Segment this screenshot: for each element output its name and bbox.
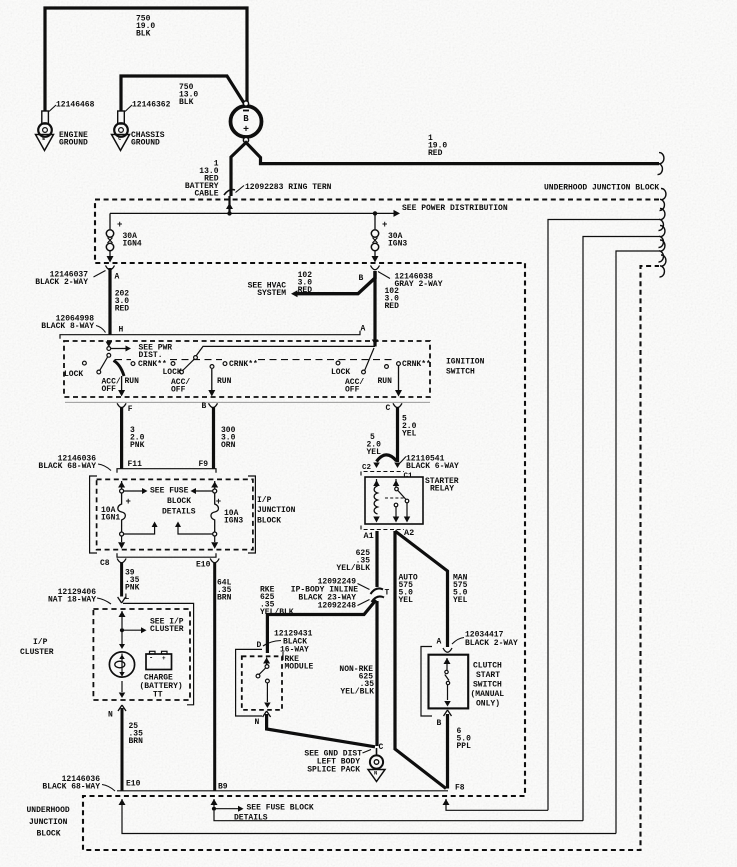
svg-text:A2: A2 — [404, 528, 414, 538]
terminal N cluster — [118, 705, 126, 711]
inline connector T 12092249/12092248 — [375, 590, 381, 600]
section 3 LOCK contact — [336, 361, 340, 365]
svg-text:CRNK**: CRNK** — [402, 360, 431, 369]
wire RKE branch 625 .35 YEL/BLK — [267, 600, 376, 653]
svg-text:TT: TT — [153, 690, 163, 699]
svg-text:E10: E10 — [126, 779, 141, 788]
svg-text:PNK: PNK — [125, 584, 140, 593]
svg-text:F11: F11 — [128, 460, 143, 469]
section 2 CRNK contact — [223, 362, 227, 366]
svg-text:SWITCH: SWITCH — [446, 367, 475, 376]
wire MAN 575 5.0 YEL from A2 — [395, 531, 448, 647]
starter relay box — [365, 477, 423, 524]
clutch switch contacts — [444, 658, 451, 664]
section 2 output to B — [211, 369, 213, 392]
section 2 RUN contact — [210, 365, 214, 369]
break top dashed border — [660, 188, 666, 210]
ignition switch crank feed line — [196, 346, 375, 356]
clutch switch bracket — [421, 647, 432, 717]
svg-text:E: E — [42, 136, 45, 142]
svg-text:+: + — [382, 220, 387, 230]
svg-text:MODULE: MODULE — [285, 662, 314, 671]
label 12146362 with leader — [125, 105, 132, 112]
svg-text:CLUSTER: CLUSTER — [20, 648, 54, 657]
section 2 LOCK contact — [171, 362, 175, 366]
svg-text:BLOCK: BLOCK — [257, 517, 281, 526]
RKE module dashed box — [242, 656, 282, 710]
svg-text:SYSTEM: SYSTEM — [257, 289, 286, 298]
svg-text:LOCK: LOCK — [331, 368, 350, 377]
svg-text:IGNITION: IGNITION — [446, 357, 485, 366]
break bottom dashed border — [660, 255, 666, 277]
label 12129406 NAT 18-WAY with leader — [97, 598, 111, 604]
svg-text:RUN: RUN — [378, 377, 393, 386]
feed wire right 2 — [583, 237, 659, 821]
svg-text:BRN: BRN — [217, 594, 232, 603]
18-way connector line and bracket — [123, 603, 194, 704]
svg-text:YEL: YEL — [399, 596, 414, 605]
svg-text:A: A — [437, 637, 442, 646]
bus wire inside junction block — [110, 212, 396, 214]
label 12129431 BLACK 16-WAY with leader — [263, 641, 281, 647]
svg-text:RUN: RUN — [125, 377, 140, 386]
label 12146468 with leader — [49, 105, 56, 112]
arrow SEE HVAC SYSTEM — [291, 290, 298, 297]
svg-text:RED: RED — [298, 286, 313, 295]
ignition switch dashed box — [64, 341, 430, 397]
off-page break of RED feed wire — [658, 153, 664, 175]
svg-text:BLOCK: BLOCK — [167, 497, 191, 506]
label 12146037 BLACK 2-WAY with leader — [94, 271, 106, 278]
section 1 LOCK contact — [83, 361, 87, 365]
svg-text:BLK: BLK — [179, 98, 194, 107]
svg-text:START: START — [476, 671, 500, 680]
underhood junction block dashed outline — [83, 200, 659, 851]
8-way connector line — [60, 331, 360, 339]
terminal B out — [209, 403, 218, 407]
arrow SEE POWER DISTRIBUTION — [394, 210, 401, 217]
svg-text:YEL/BLK: YEL/BLK — [336, 564, 370, 573]
label 12146038 GRAY 2-WAY with leader — [378, 272, 390, 279]
wire NON-RKE 625 .35 YEL/BLK — [375, 601, 378, 746]
svg-text:GROUND: GROUND — [131, 138, 160, 147]
cluster feed wire with SEE I/P CLUSTER tap — [119, 611, 126, 617]
svg-text:I/P: I/P — [257, 496, 272, 505]
svg-text:SEE POWER DISTRIBUTION: SEE POWER DISTRIBUTION — [402, 204, 508, 213]
underhood block bottom internal wiring E10 — [119, 799, 126, 805]
wire 1 19.0 RED battery positive feed — [231, 143, 659, 197]
svg-text:T: T — [385, 588, 390, 597]
label 12092249 IP-BODY INLINE BLACK 23-WAY 12092248 — [358, 584, 370, 590]
wire 750 13.0 BLK battery negative to chassis ground — [121, 76, 244, 111]
svg-text:YEL: YEL — [367, 448, 382, 457]
svg-text:BLACK 2-WAY: BLACK 2-WAY — [35, 278, 88, 287]
svg-text:12146468: 12146468 — [56, 100, 95, 109]
starter relay coil — [373, 480, 380, 486]
wire C1 entry — [394, 463, 401, 469]
svg-text:(MANUAL: (MANUAL — [471, 690, 505, 699]
svg-text:C: C — [386, 404, 391, 413]
svg-text:OFF: OFF — [345, 385, 360, 394]
svg-text:12146362: 12146362 — [132, 100, 171, 109]
svg-text:CLUTCH: CLUTCH — [473, 661, 502, 670]
charge indicator lamp — [109, 652, 134, 677]
svg-text:B: B — [359, 274, 364, 283]
wire 3 2.0 PNK — [120, 408, 123, 469]
svg-text:B9: B9 — [218, 782, 228, 791]
svg-text:BLOCK: BLOCK — [37, 829, 61, 838]
svg-text:NAT 18-WAY: NAT 18-WAY — [48, 595, 96, 604]
underhood block bottom internal wiring F8 — [443, 799, 450, 805]
mechanical link dashed line — [115, 359, 131, 361]
svg-text:BLACK 8-WAY: BLACK 8-WAY — [41, 322, 94, 331]
fuse 10A IGN1 — [118, 482, 125, 488]
terminal F — [117, 403, 126, 407]
svg-text:BLACK 68-WAY: BLACK 68-WAY — [42, 782, 100, 791]
svg-text:BLACK 68-WAY: BLACK 68-WAY — [38, 462, 96, 471]
wire 300 3.0 ORN — [212, 408, 215, 469]
68-way connector line lower — [117, 553, 216, 557]
svg-text:16-WAY: 16-WAY — [280, 645, 309, 654]
svg-text:12092283 RING TERN: 12092283 RING TERN — [245, 183, 332, 192]
cup C8 — [117, 559, 126, 563]
wire 25 .35 BRN — [121, 708, 124, 791]
svg-text:B: B — [437, 719, 442, 728]
label 12146036 BLACK 68-WAY bottom with leader — [102, 785, 115, 792]
svg-text:PPL: PPL — [457, 742, 472, 751]
svg-text:CABLE: CABLE — [194, 190, 218, 199]
svg-text:12092248: 12092248 — [318, 601, 357, 610]
svg-text:BLACK 2-WAY: BLACK 2-WAY — [465, 639, 518, 648]
svg-text:E10: E10 — [196, 560, 211, 569]
svg-text:C: C — [118, 136, 121, 142]
svg-text:B: B — [243, 114, 249, 124]
ignition switch section 1 feed — [106, 342, 113, 348]
svg-text:N: N — [374, 770, 377, 777]
section 1 output to F — [121, 376, 123, 392]
svg-text:BRN: BRN — [129, 737, 144, 746]
circuit breaker 30A IGN4 — [109, 213, 111, 229]
svg-text:OFF: OFF — [102, 385, 117, 394]
section 3 RUN contact — [385, 365, 389, 369]
svg-text:A: A — [361, 324, 366, 333]
wire 102 3.0 RED down to ignition switch — [373, 271, 376, 347]
svg-text:GRAY 2-WAY: GRAY 2-WAY — [395, 280, 443, 289]
text RKE MODULE — [282, 652, 284, 660]
svg-text:GROUND: GROUND — [59, 138, 88, 147]
node IGN3 feed on bus — [373, 211, 377, 215]
I/P junction block dashed box — [97, 479, 253, 549]
engine ground ring terminal 12146468 — [42, 111, 49, 124]
I/P cluster dashed box — [93, 609, 190, 700]
feed wire right 3 — [616, 251, 659, 834]
section 1 RUN blade — [114, 361, 125, 377]
cup E10 — [210, 559, 219, 563]
svg-text:RED: RED — [385, 302, 400, 311]
svg-text:IGN3: IGN3 — [388, 239, 407, 248]
svg-text:RELAY: RELAY — [430, 484, 454, 493]
svg-text:SEE FUSE BLOCK: SEE FUSE BLOCK — [247, 803, 314, 812]
svg-text:LOCK: LOCK — [64, 370, 83, 379]
circuit breaker 30A IGN3 — [374, 213, 376, 229]
svg-text:BLACK 6-WAY: BLACK 6-WAY — [406, 462, 459, 471]
svg-text:YEL/BLK: YEL/BLK — [260, 608, 294, 617]
starter relay contact — [393, 480, 400, 486]
svg-text:ONLY): ONLY) — [476, 699, 500, 708]
svg-text:IGN4: IGN4 — [123, 239, 142, 248]
svg-text:CRNK**: CRNK** — [229, 360, 258, 369]
svg-text:C2: C2 — [362, 464, 372, 472]
section 1 wiper — [107, 353, 111, 357]
svg-text:IGN1: IGN1 — [101, 513, 120, 522]
section 3 output to C — [398, 366, 400, 392]
svg-text:H: H — [119, 325, 124, 334]
chassis ground ring terminal 12146362 — [118, 111, 125, 124]
svg-text:B: B — [202, 402, 207, 411]
svg-text:+: + — [117, 220, 122, 230]
svg-text:IGN3: IGN3 — [224, 516, 243, 525]
cup clutch A — [443, 648, 452, 652]
svg-text:YEL/BLK: YEL/BLK — [340, 687, 374, 696]
svg-text:N: N — [108, 710, 113, 719]
label 12034417 BLACK 2-WAY with leader — [452, 638, 464, 645]
label 12064998 BLACK 8-WAY with leader — [96, 326, 106, 333]
wire AUTO 575 5.0 YEL from A2 — [395, 531, 446, 789]
svg-text:ORN: ORN — [221, 441, 236, 450]
svg-text:DETAILS: DETAILS — [162, 507, 196, 516]
wire 5 2.0 YEL — [396, 408, 399, 463]
svg-text:RUN: RUN — [217, 377, 232, 386]
starter relay connector bracket bottom — [361, 526, 404, 530]
svg-text:+: + — [126, 497, 131, 507]
svg-text:YEL: YEL — [402, 430, 417, 439]
I/P junction block left bracket — [90, 476, 97, 553]
svg-text:LOCK: LOCK — [163, 368, 182, 377]
wire battery cable into underhood junction block — [228, 196, 230, 213]
svg-text:F9: F9 — [199, 460, 209, 469]
svg-text:SWITCH: SWITCH — [473, 680, 502, 689]
underhood block bottom internal wiring B9 SEE FUSE BLOCK — [211, 799, 218, 805]
svg-text:UNDERHOOD: UNDERHOOD — [27, 806, 70, 815]
svg-text:F: F — [128, 405, 133, 414]
I/P junction block right bracket — [248, 476, 255, 553]
svg-text:PNK: PNK — [130, 441, 145, 450]
wire 202 3.0 RED — [108, 268, 111, 335]
section 3 wiper — [365, 348, 374, 370]
battery B — [231, 106, 262, 137]
svg-text:UNDERHOOD JUNCTION BLOCK: UNDERHOOD JUNCTION BLOCK — [544, 183, 659, 192]
section 2 wiper — [194, 356, 198, 360]
feed wire right 1 — [548, 220, 659, 811]
wire 6 5.0 PPL — [446, 714, 449, 789]
wire RKE to splice — [267, 714, 375, 747]
RKE module bracket — [236, 649, 262, 716]
svg-text:OFF: OFF — [171, 385, 186, 394]
svg-text:CLUSTER: CLUSTER — [150, 625, 184, 634]
svg-text:N: N — [255, 718, 260, 727]
svg-text:F8: F8 — [455, 783, 465, 792]
wire 625 .35 YEL/BLK from A1 — [375, 531, 378, 587]
section 1 CRNK contact — [131, 362, 135, 366]
svg-text:JUNCTION: JUNCTION — [29, 818, 68, 827]
connector terminal A cup — [106, 266, 115, 270]
label 12110541 BLACK 6-WAY with leader — [400, 457, 406, 464]
svg-text:BLK: BLK — [136, 30, 151, 39]
68-way connector line upper — [117, 469, 216, 473]
svg-text:+: + — [243, 125, 249, 136]
svg-text:SEE FUSE: SEE FUSE — [150, 486, 189, 495]
battery icon — [146, 654, 172, 670]
ground splice symbol N — [376, 748, 378, 756]
wire 102 3.0 RED to HVAC — [296, 271, 375, 294]
svg-text:I/P: I/P — [33, 638, 48, 647]
svg-text:C: C — [379, 743, 384, 752]
svg-text:YEL: YEL — [453, 596, 468, 605]
svg-text:D: D — [257, 641, 262, 650]
ignition connector line — [65, 401, 430, 403]
label 12146036 BLACK 68-WAY with leader — [98, 464, 111, 471]
section 3 CRNK contact — [397, 362, 401, 366]
svg-text:-: - — [149, 655, 153, 663]
68-way connector line bottom — [117, 790, 448, 792]
clutch start switch box — [429, 655, 469, 709]
node battery feed on bus — [227, 211, 231, 215]
svg-text:RED: RED — [115, 305, 130, 314]
svg-text:+: + — [162, 655, 166, 662]
ring terminal 12092283 on battery cable — [224, 190, 235, 195]
svg-text:RED: RED — [428, 149, 443, 158]
wire 750 19.0 BLK battery negative to engine ground — [45, 8, 247, 111]
wire 64L .35 BRN — [213, 563, 216, 791]
svg-text:A: A — [115, 272, 120, 281]
engine ground symbol — [36, 135, 54, 151]
wire 39 .35 PNK — [120, 563, 123, 597]
fuse 10A IGN3 — [211, 482, 218, 488]
svg-text:A1: A1 — [364, 531, 374, 541]
svg-text:JUNCTION: JUNCTION — [257, 506, 296, 515]
RKE switch — [263, 658, 270, 664]
svg-text:SPLICE PACK: SPLICE PACK — [307, 765, 360, 774]
svg-text:DIST.: DIST. — [139, 351, 163, 360]
chassis ground symbol — [112, 135, 130, 151]
svg-text:C8: C8 — [100, 559, 110, 568]
connector terminal B cup — [371, 266, 380, 270]
cluster output to N — [121, 681, 123, 692]
wire 5 2.0 YEL branch to C2 — [377, 455, 397, 462]
starter relay connector bracket top — [361, 472, 404, 476]
terminal C out — [393, 403, 402, 407]
terminal N RKE — [263, 711, 271, 717]
